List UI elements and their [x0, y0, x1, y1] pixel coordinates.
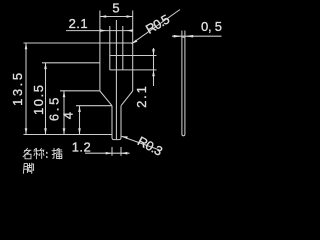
slot right vertical: [122, 26, 124, 70]
dim 6.5 line: [63, 91, 65, 135]
arrow dim2.1R lower: [152, 70, 155, 76]
dim 4 line: [79, 106, 81, 135]
char 插: [52, 148, 56, 158]
dim 1.2 line: [85, 152, 130, 154]
char 称: [34, 148, 39, 159]
ext 6.5 top: [60, 90, 100, 92]
main view: blade right edge + dim-5 extension: [132, 11, 134, 92]
dim 5 line: [100, 16, 133, 18]
dim 1.2 right ext: [120, 147, 122, 156]
title text 名称: 插 (hand strokes): [23, 148, 62, 159]
arrow dim4 bottom: [78, 128, 81, 134]
ext 10.5 top: [42, 62, 100, 64]
arrow R0.3 leader: [122, 136, 128, 139]
arrow R0.5 leader: [132, 40, 138, 44]
ext 4 top: [76, 105, 112, 107]
main view: blade left edge + dim-5 extension: [99, 11, 101, 92]
arrow dim6.5 top: [63, 91, 66, 97]
svg-text:2.1: 2.1: [69, 16, 88, 31]
side view top edge: [182, 36, 185, 38]
arrow dim6.5 bottom: [63, 128, 66, 134]
R0.5 leader: [132, 10, 181, 44]
colon: [46, 153, 48, 158]
svg-text:6.5: 6.5: [46, 98, 61, 122]
dim 2.1 right line: [153, 48, 155, 86]
svg-text:1.2: 1.2: [72, 139, 91, 154]
arrow dim1.2 left: [106, 152, 112, 155]
dim 10.5 line: [45, 63, 47, 135]
dim 1.2 left ext: [111, 147, 113, 156]
slot bottom edge y69.9 + right ext: [110, 69, 157, 71]
slot top edge y55.5 + right ext: [110, 55, 157, 57]
dim 13.5 line: [25, 43, 27, 135]
arrow dim2.1R upper: [152, 49, 155, 55]
svg-text:0, 5: 0, 5: [201, 19, 222, 34]
arrow dim2.1 top right: [126, 29, 132, 32]
svg-text:5: 5: [112, 1, 119, 16]
arrow dim1.2 right: [121, 152, 127, 155]
centerline: [115, 20, 117, 139]
slot left vertical: [109, 26, 111, 70]
char 名: [23, 148, 31, 157]
svg-text:13.5: 13.5: [10, 73, 25, 106]
arrow dim13.5 bottom: [25, 128, 28, 134]
arrow dim13.5 top: [25, 43, 28, 49]
svg-text:2.1: 2.1: [134, 86, 149, 108]
arrow dim5 right: [126, 15, 132, 18]
blade top edge / dim 2.1 line: [66, 30, 133, 32]
pin outline with R0.3 tip: [112, 106, 121, 140]
taper left: [100, 91, 112, 106]
blade inner horizontal y43 + ext for 13.5: [24, 42, 133, 44]
arrow dim10.5 bottom: [44, 128, 47, 134]
tip baseline ext: [24, 134, 113, 136]
R0.3 leader: [122, 136, 160, 150]
title text 脚 (hand strokes): [23, 163, 33, 173]
arrow dim0.5 right: [185, 35, 193, 38]
arrow dim5 left: [100, 15, 106, 18]
dim 0.5 line: [172, 35, 222, 37]
arrow dim10.5 top: [44, 63, 47, 69]
arrow dim2.1 top left: [100, 29, 106, 32]
arrow dim4 top: [78, 106, 81, 112]
svg-text:4: 4: [61, 112, 76, 119]
svg-text:10.5: 10.5: [31, 85, 46, 115]
side view thin part: [182, 31, 185, 136]
taper right: [121, 91, 133, 106]
arrow dim0.5 left: [174, 35, 182, 38]
